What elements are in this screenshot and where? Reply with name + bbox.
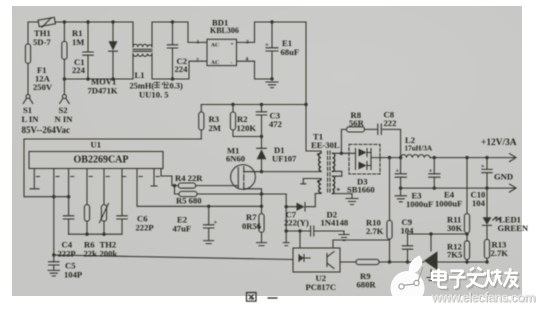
svg-text:GND: GND (494, 172, 513, 182)
svg-text:4: 4 (246, 57, 249, 63)
svg-text:5D-7: 5D-7 (33, 37, 51, 47)
svg-text:120K: 120K (237, 123, 257, 133)
svg-text:1000uF: 1000uF (406, 199, 433, 209)
svg-text:224: 224 (175, 64, 189, 74)
svg-text:3: 3 (246, 40, 249, 46)
svg-text:30K: 30K (447, 223, 463, 233)
svg-text:104P: 104P (64, 270, 82, 280)
svg-text:*: * (317, 179, 321, 187)
svg-text:680R: 680R (357, 280, 377, 290)
svg-text:+12V/3A: +12V/3A (481, 138, 517, 148)
svg-text:N IN: N IN (55, 114, 74, 124)
svg-text:L2: L2 (405, 135, 415, 145)
svg-text:2.7K: 2.7K (366, 226, 384, 236)
svg-text:25mH(: 25mH( (130, 82, 155, 91)
svg-text:250V: 250V (33, 82, 53, 92)
svg-text:1000uF: 1000uF (435, 199, 462, 209)
svg-text:2.7K: 2.7K (491, 248, 509, 258)
svg-text:GREEN: GREEN (498, 223, 529, 233)
svg-text:1: 1 (197, 40, 200, 46)
svg-text:85V--264Vac: 85V--264Vac (22, 125, 71, 135)
svg-text:UF107: UF107 (272, 154, 297, 164)
svg-text:22k: 22k (84, 249, 98, 259)
svg-text:SB1660: SB1660 (347, 185, 375, 195)
svg-text:-: - (231, 60, 233, 66)
svg-text:*: * (317, 152, 321, 160)
svg-text:+: + (481, 163, 485, 170)
svg-text:200k: 200k (100, 249, 118, 259)
svg-text:222P: 222P (136, 223, 154, 233)
svg-text:+: + (429, 168, 433, 175)
svg-text:AC: AC (211, 60, 219, 66)
svg-text:222(Y): 222(Y) (284, 218, 309, 228)
svg-text:17uH/3A: 17uH/3A (405, 145, 433, 153)
svg-text:AC: AC (211, 43, 219, 49)
svg-text:L IN: L IN (22, 114, 40, 124)
svg-text:U1: U1 (91, 140, 102, 150)
svg-text:L1: L1 (135, 70, 145, 80)
svg-text:7K5: 7K5 (447, 250, 462, 260)
svg-text:222: 222 (384, 118, 397, 128)
svg-text:R5 680: R5 680 (176, 196, 202, 206)
svg-text:472: 472 (269, 119, 282, 129)
svg-text:2: 2 (196, 58, 199, 64)
svg-text:+: + (214, 219, 218, 226)
svg-text:47uF: 47uF (173, 224, 192, 234)
svg-text:68uF: 68uF (281, 47, 300, 57)
svg-text:2M: 2M (209, 123, 221, 133)
svg-text:+: + (265, 42, 269, 49)
svg-text:1M: 1M (72, 37, 84, 47)
svg-text:1N4148: 1N4148 (321, 218, 349, 228)
svg-text:0.3): 0.3) (170, 82, 183, 91)
svg-text:KBL306: KBL306 (210, 26, 239, 35)
svg-text:104: 104 (472, 198, 486, 208)
svg-text:EE-30L: EE-30L (311, 140, 340, 150)
svg-text:6N60: 6N60 (226, 154, 245, 164)
svg-text:+: + (231, 42, 234, 48)
svg-text:104: 104 (401, 226, 415, 236)
svg-text:7D471K: 7D471K (88, 86, 118, 96)
svg-text:www.elecfans.com: www.elecfans.com (431, 290, 536, 305)
svg-text:222P: 222P (58, 249, 76, 259)
svg-text:UU10. 5: UU10. 5 (139, 90, 169, 100)
svg-text:0R56: 0R56 (242, 221, 262, 231)
svg-text:*: * (337, 187, 341, 195)
svg-text:PC817C: PC817C (306, 282, 337, 292)
svg-text:R4 22R: R4 22R (175, 173, 203, 183)
svg-text:224: 224 (72, 65, 86, 75)
svg-text:OB2269CAP: OB2269CAP (74, 155, 129, 166)
svg-text:+: + (396, 168, 400, 175)
svg-text:56R: 56R (349, 118, 365, 128)
